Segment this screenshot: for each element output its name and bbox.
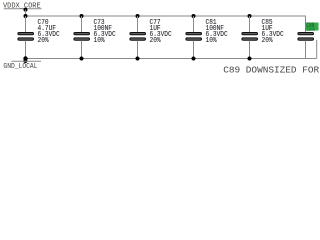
junction dot top bus at C70 — [24, 14, 28, 18]
svg-text:GND_LOCAL: GND_LOCAL — [3, 63, 37, 71]
capacitor C89 top plate — [298, 33, 314, 35]
capacitor C85 top plate — [242, 33, 258, 35]
junction dot top bus at C73 — [80, 14, 84, 18]
capacitor C73 top plate — [74, 33, 90, 35]
wire C85 top lead — [249, 16, 251, 33]
wire C77 top lead — [137, 16, 139, 33]
capacitor C81 top plate — [186, 33, 202, 35]
wire C89 top lead from bus corner — [305, 16, 308, 33]
wire C85 bottom lead — [249, 40, 251, 58]
junction dot top bus at C85 — [248, 14, 252, 18]
wire C89 bottom lead — [305, 40, 307, 58]
svg-text:20%: 20% — [150, 37, 162, 46]
capacitor C73 bottom plate — [74, 38, 90, 40]
capacitor C81 bottom plate — [186, 38, 202, 40]
junction dot bottom rail at C73 — [80, 57, 84, 61]
wire VDDX_CORE label underline stub — [4, 8, 42, 10]
junction dot bottom rail at C85 — [248, 57, 252, 61]
wire ground rail right end upturn — [316, 40, 318, 59]
capacitor C85 bottom plate — [242, 38, 258, 40]
wire C73 top lead — [81, 16, 83, 33]
capacitor C77 top plate — [130, 33, 146, 35]
junction dot on VDDX_CORE stub — [24, 8, 28, 12]
wire top power bus VDDX_CORE — [26, 15, 307, 17]
svg-text:100N: 100N — [307, 27, 316, 34]
wire C73 bottom lead — [81, 40, 83, 58]
wire vertical from VDDX_CORE stub to top bus — [25, 10, 27, 16]
capacitor C70 bottom plate — [18, 38, 34, 40]
capacitor C77 bottom plate — [130, 38, 146, 40]
wire C70 bottom lead — [25, 40, 27, 58]
svg-text:20%: 20% — [38, 37, 50, 46]
junction dot top bus at C77 — [136, 14, 140, 18]
svg-text:10%: 10% — [206, 37, 218, 46]
wire C77 bottom lead — [137, 40, 139, 58]
svg-text:C89 DOWNSIZED FOR: C89 DOWNSIZED FOR — [223, 64, 319, 75]
junction dot bottom rail at C70 — [23, 56, 27, 60]
reference designator C89 highlight box — [305, 23, 319, 31]
wire C70 top lead — [25, 16, 27, 33]
wire C81 bottom lead — [193, 40, 195, 58]
junction dot GND_LOCAL label stub — [23, 59, 27, 63]
svg-text:10%: 10% — [94, 37, 106, 46]
wire bottom ground rail GND_LOCAL — [26, 58, 317, 60]
wire C81 top lead — [193, 16, 195, 33]
wire GND_LOCAL label overline stub — [11, 60, 41, 62]
svg-text:20%: 20% — [262, 37, 274, 46]
junction dot bottom rail at C81 — [192, 57, 196, 61]
capacitor C70 top plate — [18, 33, 34, 35]
junction dot top bus at C81 — [192, 14, 196, 18]
junction dot bottom rail at C77 — [136, 57, 140, 61]
capacitor C89 bottom plate — [298, 38, 314, 40]
